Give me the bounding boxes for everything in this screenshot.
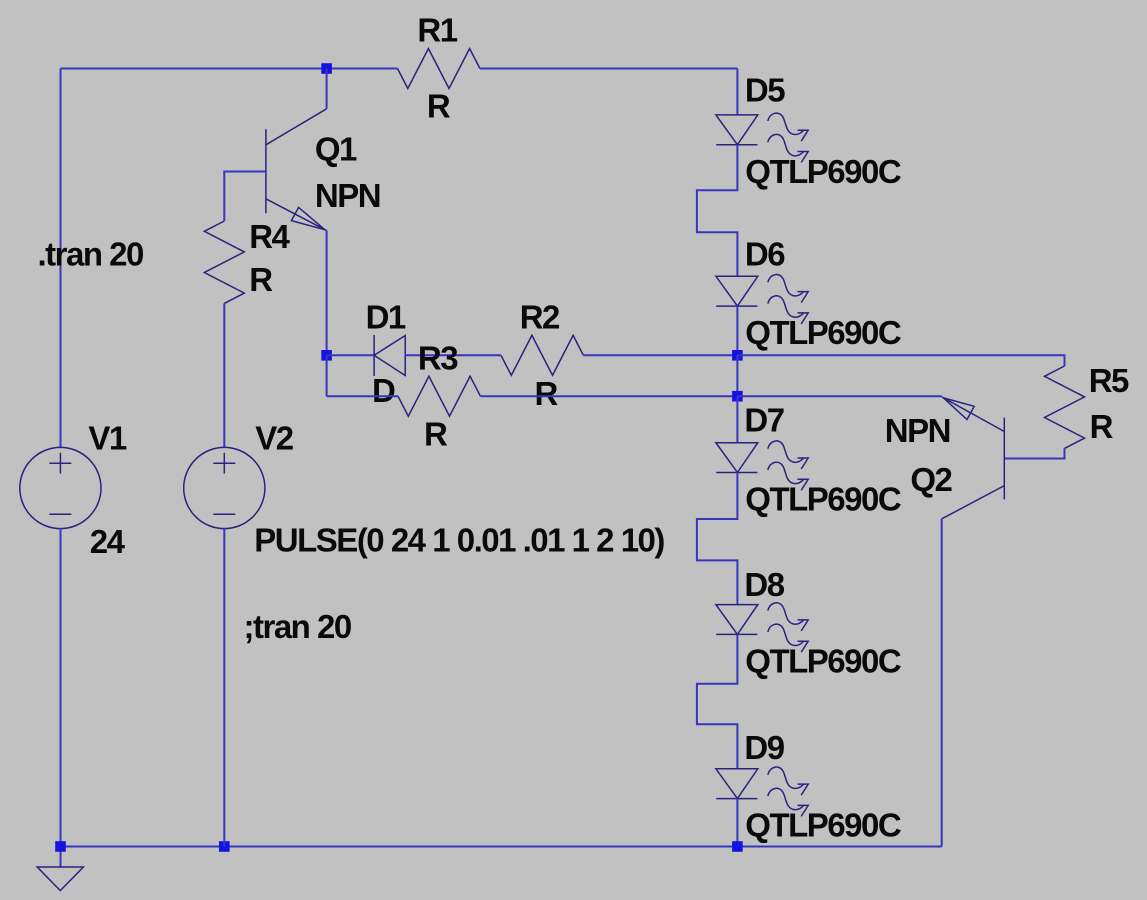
svg-text:Q2: Q2 <box>910 461 952 498</box>
wire node A down leg <box>326 355 328 396</box>
transistor Q1 <box>266 109 327 231</box>
wire left rail down to V1 <box>60 69 62 448</box>
svg-text:D7: D7 <box>744 402 783 439</box>
wire R3 to D7 junction <box>480 395 737 397</box>
junction LED row396 <box>732 391 743 402</box>
wire junction to Q2 emitter <box>737 395 941 397</box>
svg-text:D9: D9 <box>744 729 784 766</box>
svg-text:D: D <box>372 372 395 409</box>
wire Q2 collector down to rail <box>941 519 943 847</box>
svg-text:V2: V2 <box>255 419 294 456</box>
ground symbol <box>37 847 83 891</box>
svg-text:R: R <box>535 375 559 412</box>
junction node top at R1 <box>321 63 332 74</box>
wire junction row396 down to D7 <box>736 396 738 443</box>
wire node A leg to R3 <box>327 395 398 397</box>
wire D1 to R2 <box>405 354 501 356</box>
svg-text:24: 24 <box>90 523 126 560</box>
wire bottom ground rail <box>61 846 942 848</box>
wire R2 to LED junction <box>583 354 737 356</box>
transistor Q2 <box>942 397 1005 519</box>
wire D7 to D8 jog <box>697 473 738 605</box>
resistor R3 <box>398 376 480 416</box>
voltage source V1 <box>20 447 101 528</box>
svg-text:PULSE(0 24 1 0.01 .01 1 2 10): PULSE(0 24 1 0.01 .01 1 2 10) <box>254 522 664 559</box>
wire D6 to junction <box>736 306 738 355</box>
wire Q1 emitter down to node A <box>326 231 328 356</box>
wire top rail left segment <box>61 68 398 70</box>
svg-text:NPN: NPN <box>885 412 950 449</box>
junction V2 bottom <box>219 841 230 852</box>
wire D8 to D9 jog <box>697 635 738 769</box>
wire D9 to bottom rail <box>736 799 738 847</box>
svg-text:R4: R4 <box>249 218 290 255</box>
svg-text:R: R <box>427 88 451 125</box>
junction bottom-left <box>55 841 66 852</box>
svg-text:D1: D1 <box>366 299 406 336</box>
wire junction to R5 corner <box>737 355 1064 366</box>
resistor R5 <box>1045 366 1085 448</box>
wire V1 bottom to ground rail <box>60 528 62 846</box>
junction node A <box>321 350 332 361</box>
svg-text:Q1: Q1 <box>315 131 357 168</box>
wire Q1 base to R4 <box>224 172 266 222</box>
svg-text:QTLP690C: QTLP690C <box>745 314 901 351</box>
svg-text:;tran 20: ;tran 20 <box>244 608 351 645</box>
wire collector drop from top rail <box>326 69 328 109</box>
svg-text:R3: R3 <box>418 340 458 377</box>
junction bottom LED chain <box>732 841 743 852</box>
wire D5 to D6 jog <box>697 145 738 277</box>
LED D7 <box>716 441 808 490</box>
svg-text:.tran 20: .tran 20 <box>38 235 144 272</box>
svg-text:QTLP690C: QTLP690C <box>745 153 901 190</box>
LED D5 <box>716 113 808 162</box>
svg-text:V1: V1 <box>88 419 127 456</box>
resistor R4 <box>204 221 244 303</box>
wire top rail right segment <box>480 68 738 70</box>
svg-text:NPN: NPN <box>315 177 380 214</box>
svg-text:R1: R1 <box>417 12 457 49</box>
diode D1 <box>374 335 405 376</box>
svg-text:R: R <box>424 416 448 453</box>
svg-text:D6: D6 <box>745 236 785 273</box>
wire V2 bottom to ground rail <box>223 528 225 846</box>
wire top right drop to D5 <box>736 69 738 115</box>
voltage source V2 <box>184 447 265 528</box>
junction LED row355 <box>732 350 743 361</box>
wire R5 bottom to Q2 base <box>1004 448 1064 458</box>
wire R4 bottom to V2 <box>223 303 225 447</box>
svg-text:D8: D8 <box>744 566 784 603</box>
wire row 396 junction between <box>736 355 738 396</box>
svg-text:QTLP690C: QTLP690C <box>745 481 901 518</box>
svg-text:R: R <box>1090 408 1114 445</box>
resistor R2 <box>501 335 583 375</box>
svg-text:QTLP690C: QTLP690C <box>745 807 901 844</box>
svg-text:R2: R2 <box>520 299 560 336</box>
LED D9 <box>716 767 808 816</box>
wire node A to D1 <box>327 354 374 356</box>
LED D6 <box>716 275 808 324</box>
svg-text:R: R <box>249 261 273 298</box>
svg-text:R5: R5 <box>1089 362 1129 399</box>
resistor R1 <box>398 49 480 89</box>
LED D8 <box>716 603 808 652</box>
svg-text:QTLP690C: QTLP690C <box>745 643 901 680</box>
svg-text:D5: D5 <box>745 72 785 109</box>
